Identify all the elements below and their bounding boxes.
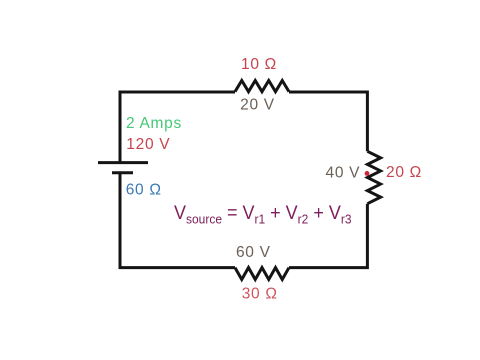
wire: top wire right of R1 + top-right corner + right upper segment [289, 92, 367, 151]
red marker dot at R2 [365, 171, 370, 176]
svg-text:120 V: 120 V [126, 136, 170, 153]
resistor R3 (bottom, zigzag) [235, 268, 289, 280]
svg-text:30 Ω: 30 Ω [242, 286, 278, 303]
resistor R2 (right, vertical zigzag) [367, 151, 380, 203]
svg-text:20 Ω: 20 Ω [386, 164, 422, 181]
svg-text:60 Ω: 60 Ω [126, 182, 162, 199]
svg-text:10 Ω: 10 Ω [241, 56, 277, 73]
svg-text:Vsource = Vr1 + Vr2 + Vr3: Vsource = Vr1 + Vr2 + Vr3 [174, 202, 352, 226]
resistor R1 (top, zigzag) [235, 81, 289, 92]
wire: left upper segment + top-left corner + top wire to resistor R1 [120, 92, 235, 163]
battery V1 long plate (positive) [98, 161, 148, 164]
svg-text:2 Amps: 2 Amps [126, 115, 182, 132]
svg-text:20 V: 20 V [240, 97, 275, 114]
svg-text:40 V: 40 V [326, 164, 361, 181]
battery V1 short plate (negative) [112, 171, 133, 174]
wire: bottom wire left of R3 + bottom-left corner + left lower segment [120, 173, 235, 268]
wire: right lower segment + bottom-right corner + bottom wire to resistor R3 [289, 204, 367, 268]
svg-text:60 V: 60 V [236, 244, 271, 261]
